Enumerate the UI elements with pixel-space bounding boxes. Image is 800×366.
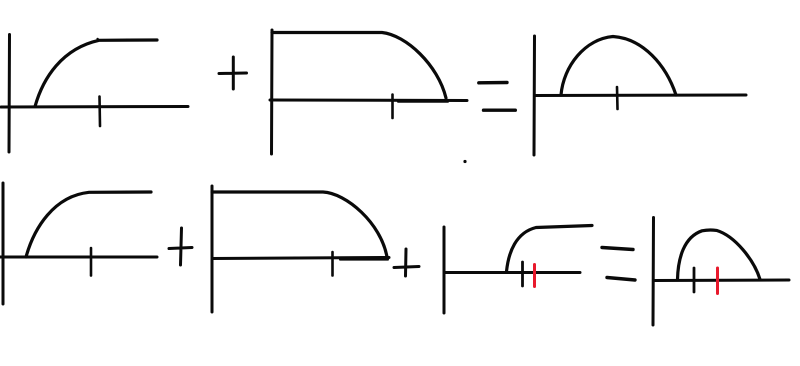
graph 5 axis overdraw segment [340,259,388,261]
graph 5 horizontal axis [212,258,389,259]
graph 7 vertical axis [652,218,656,326]
graph 1 curve-flat junction nub [96,38,98,40]
graph 5 vertical axis [211,186,214,312]
graph 1 vertical axis [8,35,12,153]
graph 7 black tick [693,268,696,292]
plus sign 2 [169,228,192,265]
graph 7 dome curve [678,230,761,280]
equals sign 1 top bar [479,81,507,85]
graph 2 flat-then-falling curve [272,33,446,99]
graph 6 vertical axis [443,227,446,313]
stray dot [463,160,466,163]
plus sign 3 [394,249,419,276]
graph 2 axis overdraw segment [398,101,448,103]
graph 2 vertical axis [270,30,274,154]
graph 7 red tick [716,268,719,294]
equals sign 2 bottom bar [607,278,635,281]
graph 1 tick [98,97,101,127]
graph 5 flat-then-falling curve [212,192,387,257]
plus sign 1 [219,57,247,89]
equals sign 1 bottom bar [484,108,516,111]
graph 1 rising curve [35,40,157,107]
graph 6 rising curve [507,226,593,272]
equals sign 2 top bar [602,248,633,250]
graph 3 dome curve [561,37,676,96]
graph 6 red tick [533,265,536,287]
graph 6 black tick [521,262,524,286]
graph 4 tick [90,248,93,276]
graph 6 horizontal axis [444,271,580,274]
graph 3 vertical axis [533,36,537,155]
graph 4 horizontal axis [0,256,157,259]
graph 2 tick [391,95,394,119]
graph 4 vertical axis [2,183,5,304]
graph 3 tick [616,87,619,109]
graph 3 horizontal axis [535,94,746,98]
graph 1 horizontal axis [1,105,188,109]
graph 5 tick [331,252,334,276]
graph 4 rising curve [26,192,151,257]
graph 7 horizontal axis [654,279,789,283]
graph 2 horizontal axis [270,99,467,103]
